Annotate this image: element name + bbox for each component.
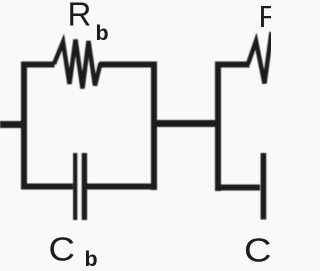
- svg-text:R: R: [68, 0, 92, 33]
- wire: left block right edge: [151, 62, 157, 191]
- wire: left block bottom edge (left of capacitor): [21, 184, 73, 190]
- wire: middle connecting lead: [151, 120, 221, 127]
- wire: right block top edge: [215, 62, 250, 68]
- capacitor C (right, partially cut) left plate: [261, 153, 267, 220]
- svg-text:b: b: [96, 21, 109, 45]
- wire: right block left edge: [215, 62, 221, 192]
- wire: left block top edge (right of resistor): [100, 62, 158, 68]
- capacitor Cb plates: [73, 153, 77, 220]
- wire: right block bottom edge: [215, 185, 260, 191]
- wire: left block top edge (left of resistor): [21, 62, 55, 68]
- wire: left block bottom edge (right of capacitor): [87, 184, 157, 190]
- svg-text:C: C: [244, 232, 271, 269]
- svg-text:C: C: [49, 231, 76, 268]
- wire: left block left edge: [21, 62, 27, 190]
- resistor Rb zigzag: [54, 40, 101, 89]
- resistor R (right, partially cut) zigzag: [248, 32, 272, 84]
- wire: left input lead: [0, 121, 26, 128]
- svg-text:R: R: [259, 0, 272, 34]
- svg-text:b: b: [85, 247, 98, 271]
